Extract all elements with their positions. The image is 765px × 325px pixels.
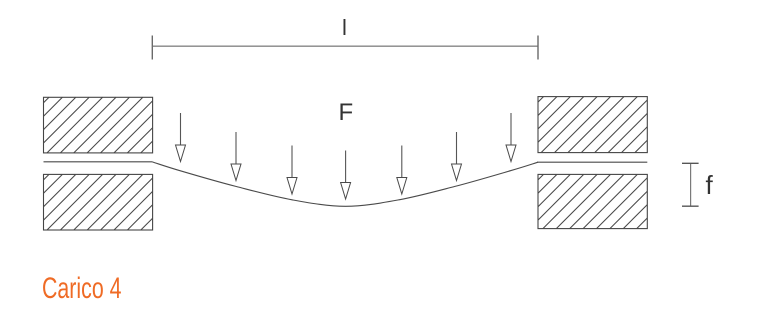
right top block [538, 97, 647, 153]
left top block [44, 97, 153, 153]
load arrow 5 [397, 146, 407, 195]
svg-text:Carico 4: Carico 4 [42, 272, 122, 305]
load arrow 4 [341, 151, 351, 200]
left bottom block [44, 174, 153, 230]
dimension f bottom tick [682, 205, 699, 207]
svg-text:F: F [339, 99, 354, 126]
dimension line l (span) [152, 45, 538, 47]
membrane left segment [44, 161, 153, 163]
load arrow 6 [452, 132, 462, 181]
dimension tick left [151, 36, 153, 60]
svg-text:l: l [342, 15, 347, 40]
load arrow 1 [176, 113, 186, 162]
load arrow 3 [287, 146, 297, 195]
load arrow 7 [506, 113, 516, 162]
right bottom block [538, 174, 647, 228]
dimension f top tick [682, 162, 699, 164]
svg-text:f: f [706, 170, 714, 200]
dimension f vertical line [690, 163, 692, 206]
dimension tick right [537, 36, 539, 60]
load arrow 2 [231, 132, 241, 181]
deflected membrane curve [153, 162, 539, 206]
membrane right segment [537, 161, 647, 163]
